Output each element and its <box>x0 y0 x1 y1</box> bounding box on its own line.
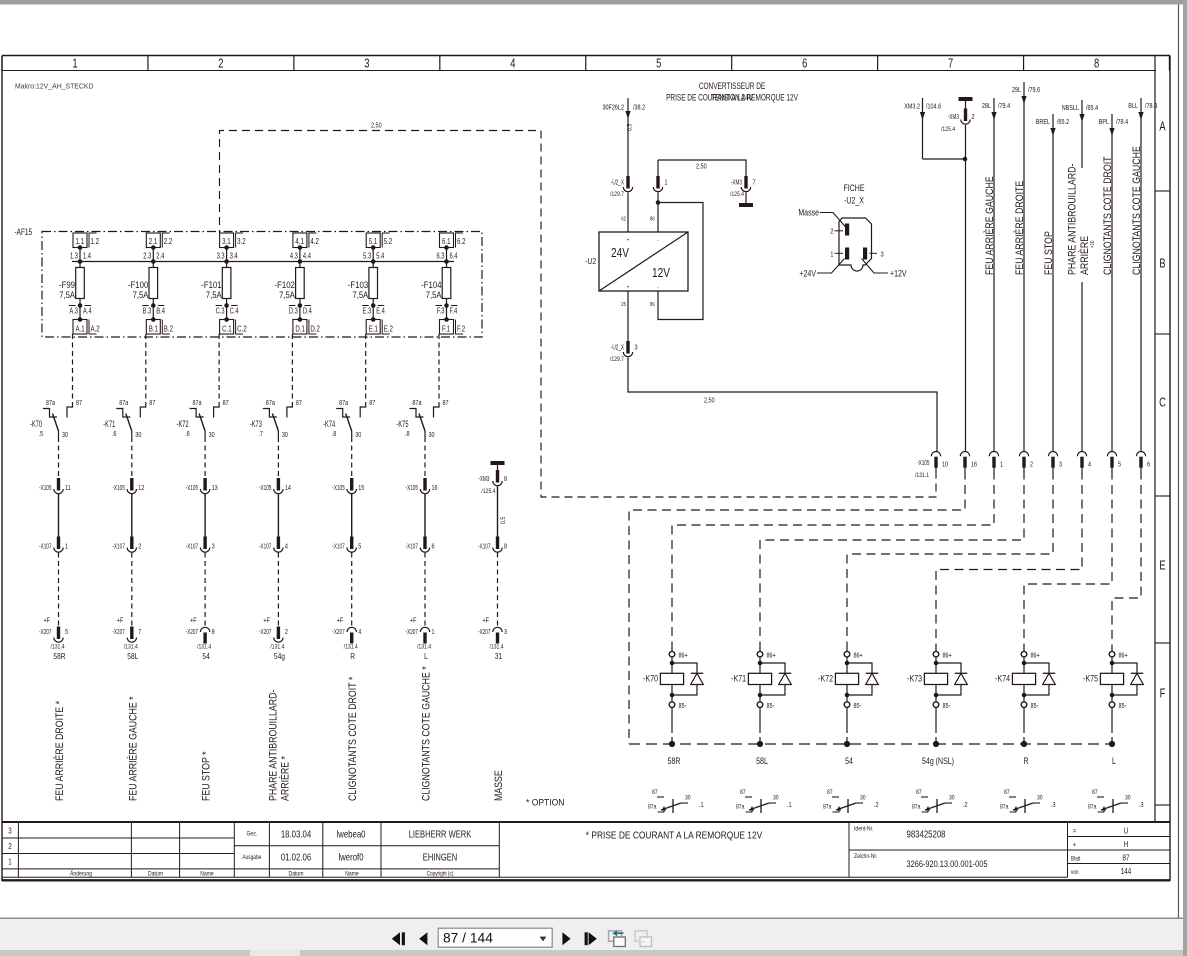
svg-text:-U2_X: -U2_X <box>844 196 864 206</box>
svg-text:=10: =10 <box>1090 240 1097 248</box>
svg-text:86+: 86+ <box>943 652 953 660</box>
svg-text:2: 2 <box>830 228 833 236</box>
svg-text:Ausgabe: Ausgabe <box>242 855 261 862</box>
svg-text:F.3: F.3 <box>437 308 445 316</box>
svg-text:3: 3 <box>212 543 215 551</box>
svg-text:2,50: 2,50 <box>371 122 382 130</box>
svg-text:7,5A: 7,5A <box>352 289 368 300</box>
svg-text:1: 1 <box>830 251 833 259</box>
svg-text:6.4: 6.4 <box>450 253 458 261</box>
svg-text:/131.4: /131.4 <box>124 644 139 651</box>
svg-text:+F: +F <box>263 617 270 625</box>
svg-text:6.1: 6.1 <box>442 236 450 246</box>
svg-text:-X105: -X105 <box>332 484 345 492</box>
svg-text:A.1: A.1 <box>76 323 85 333</box>
svg-text:Gez.: Gez. <box>246 831 257 838</box>
svg-text:L: L <box>424 651 428 661</box>
svg-text:Makro:12V_AH_STECKD: Makro:12V_AH_STECKD <box>15 81 93 90</box>
svg-text:B.1: B.1 <box>149 323 158 333</box>
svg-text:2: 2 <box>138 543 141 551</box>
svg-text:F.1: F.1 <box>442 323 450 333</box>
svg-text:-K71: -K71 <box>731 674 746 684</box>
svg-text:-X207: -X207 <box>406 628 419 636</box>
svg-text:87a: 87a <box>648 804 657 811</box>
svg-text:87a: 87a <box>119 399 129 407</box>
svg-text:lwerof0: lwerof0 <box>338 852 363 863</box>
svg-text:87: 87 <box>1123 854 1130 863</box>
svg-text:Blatt: Blatt <box>1071 856 1081 863</box>
svg-text:2: 2 <box>972 113 975 121</box>
svg-text:87: 87 <box>740 790 746 797</box>
svg-text:30: 30 <box>135 431 142 439</box>
svg-text:A.2: A.2 <box>91 323 100 333</box>
svg-text:28L: 28L <box>982 102 992 110</box>
svg-text:7,5A: 7,5A <box>426 289 442 300</box>
svg-text:/78.4: /78.4 <box>1145 102 1158 110</box>
svg-text:6.2: 6.2 <box>457 236 465 246</box>
svg-text:7,5A: 7,5A <box>279 289 295 300</box>
svg-text:-X207: -X207 <box>186 628 199 636</box>
svg-text:BLL: BLL <box>1128 102 1138 110</box>
svg-text:10: 10 <box>942 461 949 469</box>
svg-text:-XM3: -XM3 <box>478 475 490 483</box>
svg-text:5.1: 5.1 <box>369 236 377 246</box>
svg-text:.2: .2 <box>874 801 879 809</box>
svg-text:.3: .3 <box>1051 801 1056 809</box>
svg-text:Name: Name <box>200 871 213 878</box>
svg-text:30: 30 <box>949 795 955 802</box>
svg-text:85-: 85- <box>943 702 951 710</box>
svg-text:1: 1 <box>72 57 77 71</box>
svg-text:85-: 85- <box>1119 702 1127 710</box>
svg-text:.6: .6 <box>185 430 190 438</box>
svg-text:2,50: 2,50 <box>704 397 715 405</box>
svg-text:-X207: -X207 <box>259 628 272 636</box>
svg-text:von: von <box>1071 870 1079 877</box>
svg-text:54: 54 <box>202 651 210 661</box>
svg-text:29L: 29L <box>1012 86 1022 94</box>
svg-text:86+: 86+ <box>679 652 689 660</box>
svg-text:/78.4: /78.4 <box>1116 118 1129 126</box>
svg-text:lwebea0: lwebea0 <box>336 829 365 840</box>
svg-text:5.3: 5.3 <box>363 253 371 261</box>
svg-text:+F: +F <box>44 617 51 625</box>
svg-text:TENSION 24V: TENSION 24V <box>711 92 754 102</box>
svg-text:FEU ARRIÈRE GAUCHE: FEU ARRIÈRE GAUCHE <box>984 176 996 275</box>
svg-text:-K70: -K70 <box>643 674 658 684</box>
svg-text:4: 4 <box>1088 461 1091 469</box>
svg-text:62: 62 <box>621 216 626 223</box>
svg-text:XM3.2: XM3.2 <box>904 103 920 111</box>
svg-text:FEU ARRIÈRE GAUCHE *: FEU ARRIÈRE GAUCHE * <box>127 696 139 801</box>
svg-text:85-: 85- <box>679 702 687 710</box>
svg-text:EHINGEN: EHINGEN <box>423 852 457 863</box>
svg-text:E: E <box>1159 559 1165 573</box>
svg-text:/131.4: /131.4 <box>489 644 504 651</box>
svg-text:1.2: 1.2 <box>91 236 99 246</box>
svg-text:8: 8 <box>504 543 507 551</box>
svg-text:0,5: 0,5 <box>627 123 634 131</box>
svg-text:-K72: -K72 <box>177 419 189 430</box>
svg-text:-X107: -X107 <box>112 543 125 551</box>
svg-text:+F: +F <box>117 617 124 625</box>
svg-text:1: 1 <box>432 628 435 636</box>
svg-text:/65.4: /65.4 <box>1086 104 1099 112</box>
svg-text:CLIGNOTANTS COTE DROIT: CLIGNOTANTS COTE DROIT <box>1102 156 1114 275</box>
svg-text:D.3: D.3 <box>289 308 298 316</box>
svg-text:144: 144 <box>1121 867 1131 876</box>
svg-text:.1: .1 <box>699 801 704 809</box>
svg-text:A.4: A.4 <box>83 308 92 316</box>
svg-text:=: = <box>1073 828 1076 836</box>
svg-text:/79.6: /79.6 <box>1028 86 1041 94</box>
svg-text:-U2: -U2 <box>585 256 596 266</box>
svg-text:-X207: -X207 <box>332 628 345 636</box>
svg-text:12V: 12V <box>652 266 670 280</box>
svg-text:E.3: E.3 <box>363 308 372 316</box>
svg-text:CLIGNOTANTS COTE DROIT *: CLIGNOTANTS COTE DROIT * <box>347 677 359 801</box>
svg-text:87: 87 <box>827 790 833 797</box>
svg-text:-X207: -X207 <box>112 628 125 636</box>
svg-text:11: 11 <box>65 484 71 492</box>
svg-text:87 / 144: 87 / 144 <box>443 931 493 946</box>
svg-text:1: 1 <box>1000 461 1003 469</box>
svg-text:5: 5 <box>65 628 68 636</box>
svg-text:Datum: Datum <box>148 871 163 878</box>
svg-text:U: U <box>1124 827 1128 836</box>
svg-text:30: 30 <box>429 431 436 439</box>
svg-text:3.1: 3.1 <box>222 236 230 246</box>
svg-text:/131.1: /131.1 <box>915 473 929 480</box>
svg-text:C: C <box>1159 396 1166 410</box>
svg-text:24V: 24V <box>611 246 629 260</box>
svg-text:+F: +F <box>190 617 197 625</box>
svg-text:87: 87 <box>369 399 376 407</box>
svg-text:15: 15 <box>358 484 365 492</box>
svg-text:.3: .3 <box>1139 801 1144 809</box>
svg-text:6: 6 <box>432 543 435 551</box>
svg-text:87a: 87a <box>823 804 832 811</box>
svg-text:5: 5 <box>1118 461 1121 469</box>
svg-text:-U2_X: -U2_X <box>611 179 624 187</box>
svg-text:-X105: -X105 <box>917 459 930 467</box>
svg-text:54g (NSL): 54g (NSL) <box>922 756 954 766</box>
svg-text:85-: 85- <box>767 702 775 710</box>
svg-text:87a: 87a <box>339 399 349 407</box>
svg-text:-K75: -K75 <box>396 419 409 430</box>
svg-text:3.2: 3.2 <box>237 236 245 246</box>
svg-text:.5: .5 <box>39 430 44 438</box>
svg-text:.2: .2 <box>963 801 968 809</box>
svg-text:-K73: -K73 <box>907 674 922 684</box>
svg-text:-K70: -K70 <box>30 419 43 430</box>
svg-text:983425208: 983425208 <box>907 829 946 840</box>
svg-text:30: 30 <box>1125 795 1131 802</box>
svg-text:7,5A: 7,5A <box>133 289 149 300</box>
svg-text:2.1: 2.1 <box>149 236 157 246</box>
svg-text:86: 86 <box>650 216 655 223</box>
svg-text:Änderung: Änderung <box>70 870 92 878</box>
svg-text:.7: .7 <box>258 430 263 438</box>
svg-text:ARRIÈRE *: ARRIÈRE * <box>280 756 292 801</box>
svg-text:2,50: 2,50 <box>696 163 707 171</box>
svg-text:+: + <box>627 285 630 291</box>
svg-text:58R: 58R <box>668 756 681 766</box>
svg-text:/131.4: /131.4 <box>50 644 65 651</box>
svg-text:Name: Name <box>345 871 358 878</box>
svg-text:6: 6 <box>802 57 807 71</box>
svg-text:/125.4: /125.4 <box>941 127 956 134</box>
svg-text:MASSE: MASSE <box>493 770 505 801</box>
svg-text:4.1: 4.1 <box>295 236 303 246</box>
svg-text:86+: 86+ <box>1119 652 1129 660</box>
svg-text:3.4: 3.4 <box>230 253 238 261</box>
svg-text:-X107: -X107 <box>332 543 345 551</box>
svg-text:1.1: 1.1 <box>76 236 84 246</box>
svg-text:.1: .1 <box>787 801 792 809</box>
svg-text:2.2: 2.2 <box>164 236 172 246</box>
svg-text:01.02.06: 01.02.06 <box>281 852 311 863</box>
svg-text:3: 3 <box>364 57 369 71</box>
svg-text:18.03.04: 18.03.04 <box>281 829 311 840</box>
svg-text:30: 30 <box>62 431 69 439</box>
svg-text:/125.4: /125.4 <box>481 489 496 496</box>
svg-text:3: 3 <box>8 827 11 836</box>
svg-text:13: 13 <box>212 484 219 492</box>
svg-text:A.3: A.3 <box>69 308 78 316</box>
svg-text:30: 30 <box>685 795 691 802</box>
svg-text:87: 87 <box>1004 790 1010 797</box>
svg-text:D.4: D.4 <box>303 308 312 316</box>
svg-text:1: 1 <box>8 858 11 867</box>
svg-text:58L: 58L <box>756 756 768 766</box>
svg-text:3266-920.13.00.001-005: 3266-920.13.00.001-005 <box>907 858 988 869</box>
svg-text:BPL: BPL <box>1099 118 1110 126</box>
svg-text:/38.2: /38.2 <box>633 104 646 112</box>
svg-text:7,5A: 7,5A <box>59 289 75 300</box>
svg-text:4.3: 4.3 <box>290 253 298 261</box>
svg-text:FEU STOP: FEU STOP <box>1043 231 1055 275</box>
svg-text:58R: 58R <box>53 651 66 661</box>
svg-text:Datum: Datum <box>289 871 304 878</box>
svg-text:87: 87 <box>1092 790 1098 797</box>
svg-text:-X105: -X105 <box>259 484 272 492</box>
svg-text:14: 14 <box>285 484 292 492</box>
svg-text:.8: .8 <box>332 430 337 438</box>
svg-text:+: + <box>627 238 630 244</box>
svg-text:B.2: B.2 <box>164 323 173 333</box>
svg-text:+: + <box>1073 841 1076 849</box>
svg-text:-U2_X: -U2_X <box>611 344 624 352</box>
svg-text:86: 86 <box>650 302 655 309</box>
svg-text:5.2: 5.2 <box>384 236 392 246</box>
svg-text:87: 87 <box>443 399 450 407</box>
svg-text:/65.2: /65.2 <box>1057 118 1070 126</box>
svg-text:87a: 87a <box>1000 804 1009 811</box>
svg-text:54g: 54g <box>274 651 285 661</box>
svg-text:/125.4: /125.4 <box>730 192 745 199</box>
svg-text:FEU ARRIÈRE DROITE: FEU ARRIÈRE DROITE <box>1014 180 1026 275</box>
svg-text:F.2: F.2 <box>457 323 465 333</box>
svg-text:7: 7 <box>138 628 141 636</box>
svg-text:3: 3 <box>1059 461 1062 469</box>
svg-text:* PRISE DE COURANT A LA REMORQ: * PRISE DE COURANT A LA REMORQUE 12V <box>586 830 763 841</box>
svg-text:25: 25 <box>621 302 626 309</box>
svg-text:-X105: -X105 <box>186 484 199 492</box>
svg-text:FICHE: FICHE <box>843 183 865 193</box>
svg-text:-X107: -X107 <box>39 543 52 551</box>
svg-text:87a: 87a <box>192 399 202 407</box>
svg-text:16: 16 <box>432 484 439 492</box>
svg-text:30: 30 <box>209 431 216 439</box>
svg-text:CONVERTISSEUR DE: CONVERTISSEUR DE <box>699 81 765 91</box>
svg-text:4: 4 <box>510 57 515 71</box>
svg-text:/131.4: /131.4 <box>197 644 212 651</box>
svg-text:-X207: -X207 <box>478 628 491 636</box>
svg-text:-K73: -K73 <box>250 419 263 430</box>
svg-text:R: R <box>1023 756 1028 766</box>
svg-text:+F: +F <box>483 617 490 625</box>
svg-text:4: 4 <box>358 628 361 636</box>
svg-text:85-: 85- <box>854 702 862 710</box>
svg-text:86+: 86+ <box>1031 652 1041 660</box>
svg-text:/131.4: /131.4 <box>417 644 432 651</box>
svg-text:CLIGNOTANTS COTE GAUCHE: CLIGNOTANTS COTE GAUCHE <box>1131 146 1143 275</box>
svg-text:FEU ARRIÈRE DROITE *: FEU ARRIÈRE DROITE * <box>54 701 66 801</box>
svg-text:-K71: -K71 <box>103 419 115 430</box>
svg-text:/129.7: /129.7 <box>610 357 624 364</box>
svg-text:-K72: -K72 <box>818 674 833 684</box>
svg-text:H: H <box>1124 840 1128 849</box>
svg-text:87a: 87a <box>412 399 422 407</box>
svg-text:87a: 87a <box>736 804 745 811</box>
svg-text:/104.6: /104.6 <box>926 103 942 111</box>
svg-text:30: 30 <box>773 795 779 802</box>
svg-text:54: 54 <box>845 756 853 766</box>
svg-text:E.4: E.4 <box>376 308 385 316</box>
svg-text:CLIGNOTANTS COTE GAUCHE *: CLIGNOTANTS COTE GAUCHE * <box>421 666 433 801</box>
svg-text:58L: 58L <box>127 651 138 661</box>
svg-text:-X107: -X107 <box>259 543 272 551</box>
svg-text:1: 1 <box>665 179 668 187</box>
svg-text:1: 1 <box>65 543 68 551</box>
svg-text:5: 5 <box>656 57 661 71</box>
svg-text:-K75: -K75 <box>1083 674 1098 684</box>
svg-text:/131.4: /131.4 <box>344 644 359 651</box>
svg-text:7: 7 <box>948 57 953 71</box>
svg-text:0,5: 0,5 <box>501 516 508 524</box>
svg-text:87: 87 <box>652 790 658 797</box>
svg-text:C.4: C.4 <box>230 308 239 316</box>
svg-text:-X105: -X105 <box>112 484 125 492</box>
svg-text:30: 30 <box>1037 795 1043 802</box>
svg-text:FEU STOP *: FEU STOP * <box>201 751 213 801</box>
svg-text:30: 30 <box>860 795 866 802</box>
svg-text:Zeichn-Nr.: Zeichn-Nr. <box>854 854 878 861</box>
svg-text:NBSLL: NBSLL <box>1062 104 1080 112</box>
svg-text:86+: 86+ <box>767 652 777 660</box>
svg-text:3: 3 <box>881 251 884 259</box>
svg-text:87a: 87a <box>46 399 56 407</box>
svg-text:87a: 87a <box>1088 804 1097 811</box>
svg-text:R: R <box>350 651 355 661</box>
svg-text:2: 2 <box>218 57 223 71</box>
svg-text:2.4: 2.4 <box>156 253 164 261</box>
svg-text:LIEBHERR WERK: LIEBHERR WERK <box>409 829 472 840</box>
svg-text:E.1: E.1 <box>369 323 378 333</box>
svg-text:1.4: 1.4 <box>83 253 91 261</box>
svg-text:85-: 85- <box>1031 702 1039 710</box>
svg-text:D.1: D.1 <box>295 323 305 333</box>
svg-text:87: 87 <box>296 399 303 407</box>
svg-text:-AF15: -AF15 <box>15 227 33 237</box>
svg-text:B.4: B.4 <box>156 308 165 316</box>
svg-text:8: 8 <box>504 475 507 483</box>
svg-text:2: 2 <box>285 628 288 636</box>
svg-text:87a: 87a <box>912 804 921 811</box>
svg-text:3.3: 3.3 <box>217 253 225 261</box>
svg-text:BREL: BREL <box>1036 118 1051 126</box>
svg-text:-K74: -K74 <box>995 674 1010 684</box>
svg-text:PHARE ANTIBROUILLARD-: PHARE ANTIBROUILLARD- <box>268 690 280 801</box>
svg-text:C.3: C.3 <box>216 308 225 316</box>
svg-text:2: 2 <box>8 842 11 851</box>
svg-text:12: 12 <box>138 484 145 492</box>
svg-text:D.2: D.2 <box>310 323 320 333</box>
svg-text:7: 7 <box>753 179 756 187</box>
svg-text:31: 31 <box>495 651 502 661</box>
svg-text:6.3: 6.3 <box>436 253 444 261</box>
svg-text:2.3: 2.3 <box>143 253 151 261</box>
svg-text:-XM3: -XM3 <box>731 179 743 187</box>
svg-text:B: B <box>1159 257 1165 271</box>
svg-text:5.4: 5.4 <box>376 253 384 261</box>
svg-text:.6: .6 <box>112 430 117 438</box>
svg-text:.8: .8 <box>405 430 410 438</box>
svg-text:+F: +F <box>337 617 344 625</box>
svg-text:30: 30 <box>355 431 362 439</box>
svg-text:5: 5 <box>358 543 361 551</box>
svg-text:87a: 87a <box>266 399 276 407</box>
svg-text:L: L <box>1112 756 1116 766</box>
svg-text:87: 87 <box>149 399 156 407</box>
svg-text:1.3: 1.3 <box>70 253 78 261</box>
svg-text:-X107: -X107 <box>186 543 199 551</box>
svg-text:-XM3: -XM3 <box>948 113 960 121</box>
svg-text:C.2: C.2 <box>237 323 247 333</box>
svg-text:-X107: -X107 <box>406 543 419 551</box>
svg-text:-X105: -X105 <box>406 484 419 492</box>
svg-text:6: 6 <box>1147 461 1150 469</box>
svg-text:87: 87 <box>76 399 83 407</box>
svg-text:8: 8 <box>212 628 215 636</box>
svg-text:/131.4: /131.4 <box>270 644 285 651</box>
svg-text:-X107: -X107 <box>478 543 491 551</box>
svg-text:-X105: -X105 <box>39 484 52 492</box>
svg-text:PHARE ANTIBROUILLARD-: PHARE ANTIBROUILLARD- <box>1067 164 1079 275</box>
svg-text:86+: 86+ <box>854 652 864 660</box>
svg-text:B.3: B.3 <box>143 308 152 316</box>
svg-text:Copyright (c): Copyright (c) <box>427 871 454 878</box>
svg-text:7,5A: 7,5A <box>206 289 222 300</box>
svg-text:F: F <box>1160 687 1166 701</box>
svg-text:Ident-Nr.: Ident-Nr. <box>854 826 874 833</box>
svg-text:/79.4: /79.4 <box>998 102 1011 110</box>
svg-text:4.4: 4.4 <box>303 253 311 261</box>
svg-text:3: 3 <box>635 344 638 352</box>
svg-text:87: 87 <box>916 790 922 797</box>
svg-text:* OPTION: * OPTION <box>526 797 564 808</box>
